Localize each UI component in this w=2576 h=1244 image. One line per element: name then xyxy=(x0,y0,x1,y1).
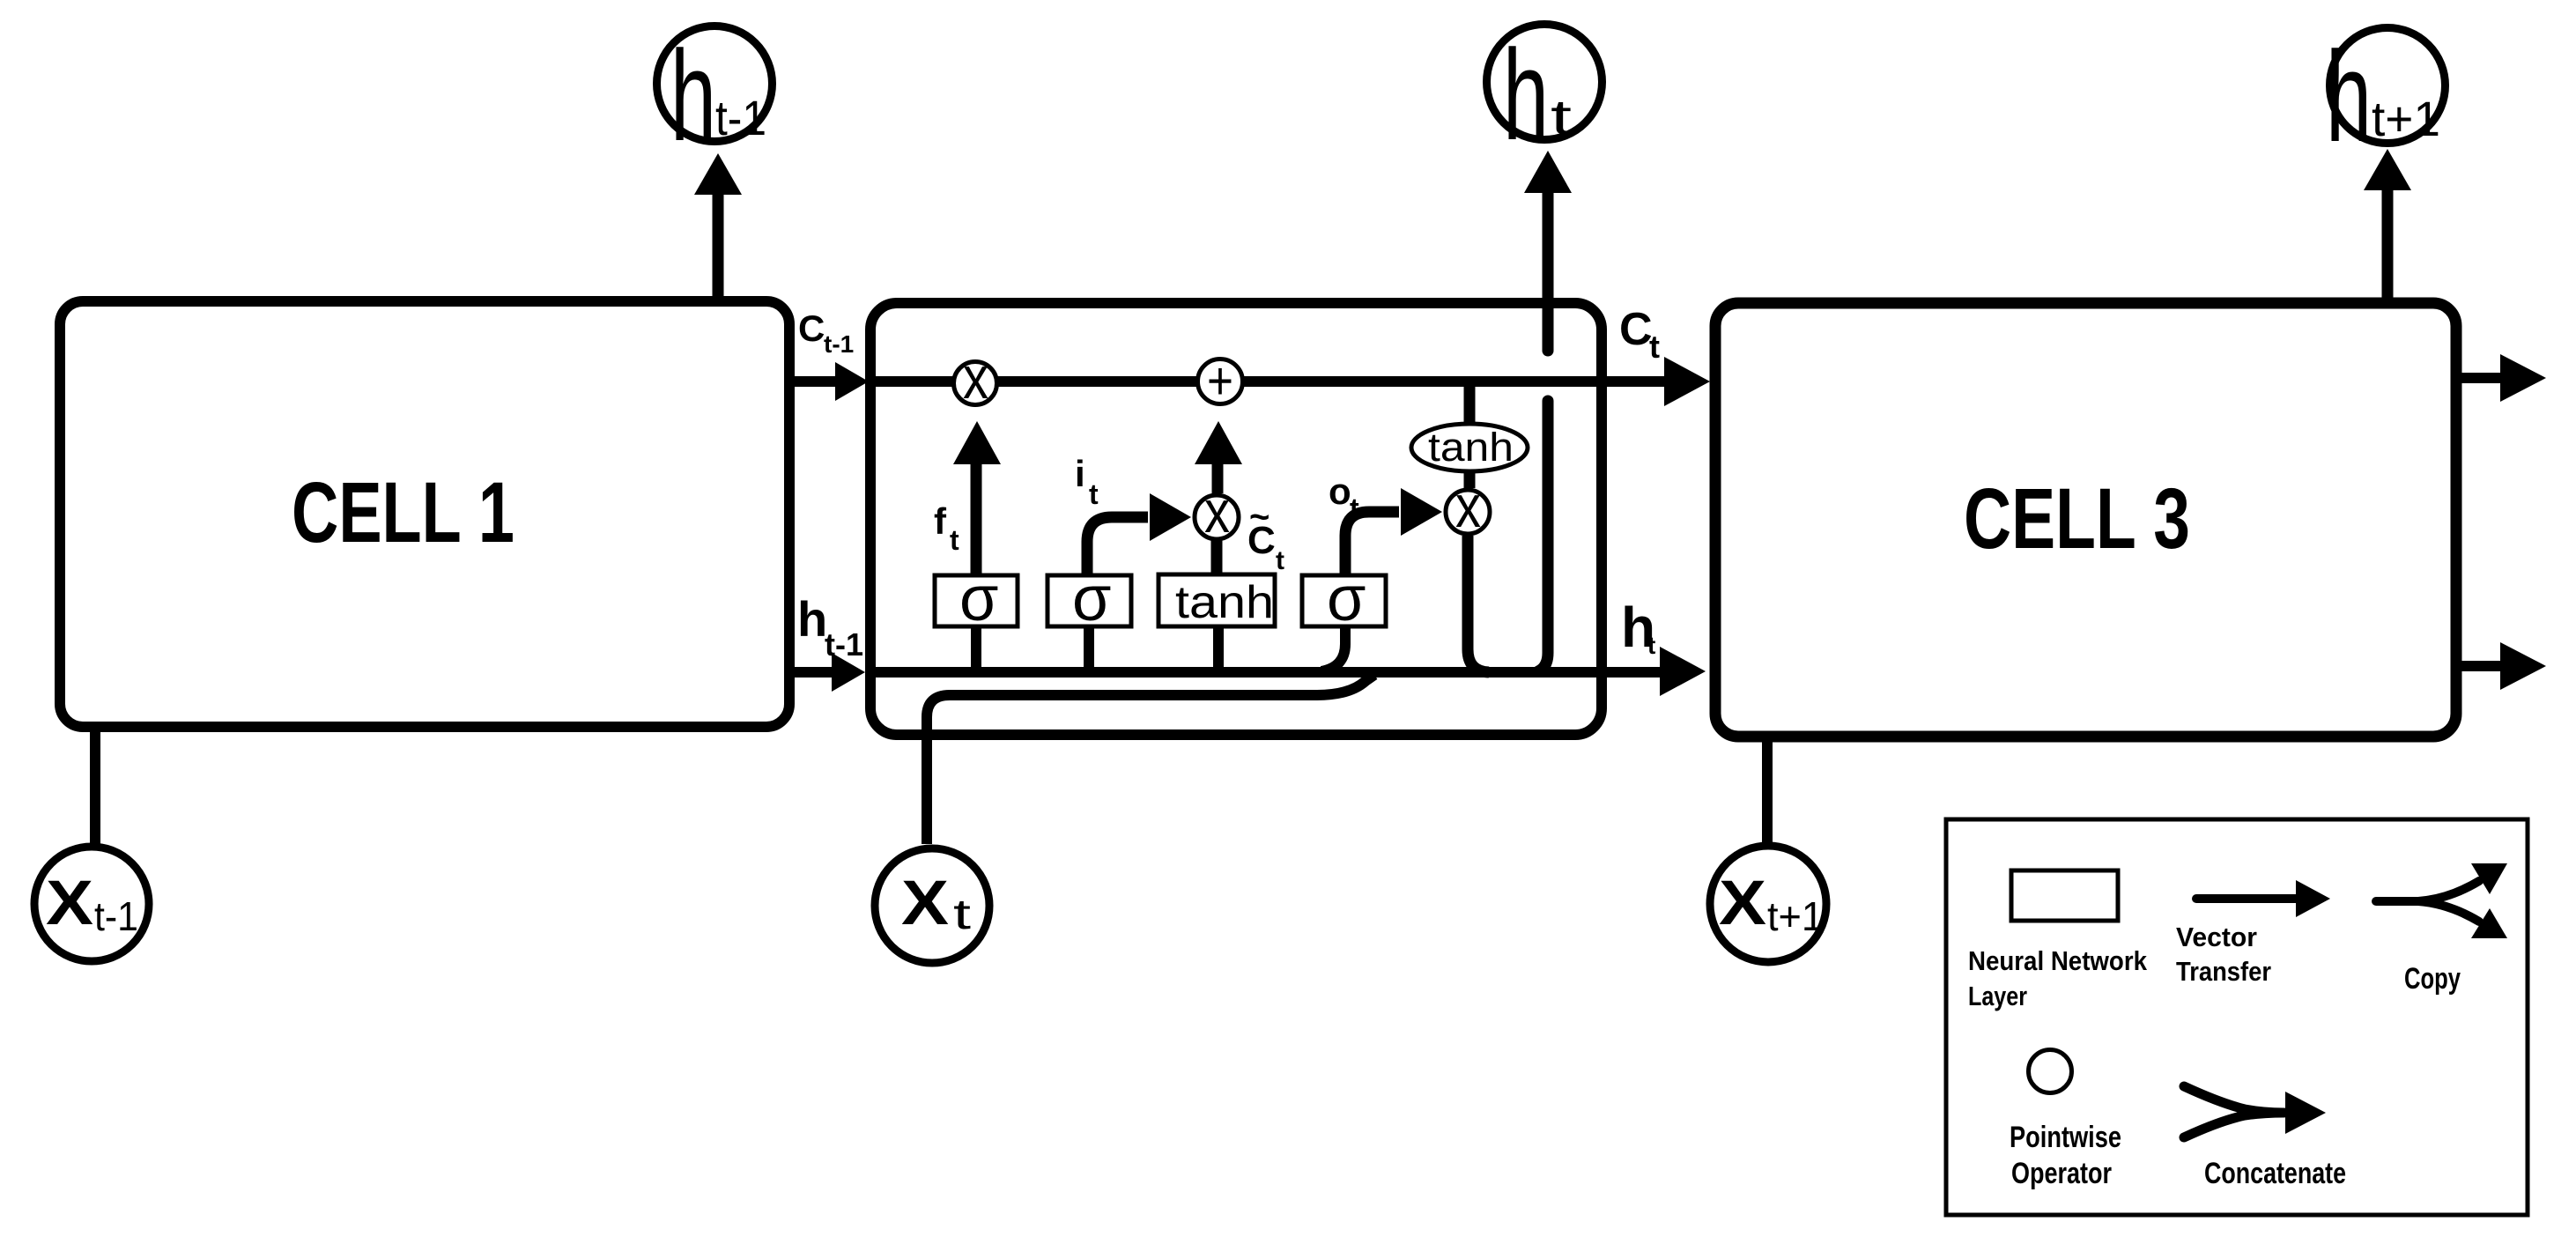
svg-text:h: h xyxy=(797,591,827,647)
svg-text:t-1: t-1 xyxy=(824,330,854,358)
cell 3 box xyxy=(1715,303,2456,737)
svg-text:+: + xyxy=(1207,352,1233,411)
wire X_t-1 input xyxy=(90,727,100,844)
svg-text:t+1: t+1 xyxy=(1767,893,1824,939)
svg-text:h: h xyxy=(2326,25,2372,168)
legend copy symbol xyxy=(2376,863,2507,938)
svg-text:o: o xyxy=(1329,470,1351,512)
legend vector transfer arrow xyxy=(2196,880,2330,917)
wire sigma1 to h rail xyxy=(971,626,981,672)
svg-text:i: i xyxy=(1075,453,1085,494)
arrow h_t-1 into cell2 xyxy=(789,653,865,692)
svg-text:Layer: Layer xyxy=(1968,981,2027,1011)
legend label neural network layer xyxy=(1968,945,2148,1011)
operator x3 circle xyxy=(1446,473,1490,540)
label h_t (wire) xyxy=(1621,596,1655,659)
svg-text:X: X xyxy=(901,869,949,938)
svg-text:t: t xyxy=(953,892,971,938)
legend label vector transfer xyxy=(2176,922,2271,987)
arrow C_t to cell3 xyxy=(1664,357,1710,406)
svg-text:t-1: t-1 xyxy=(715,90,766,145)
svg-text:Concatenate: Concatenate xyxy=(2204,1157,2346,1190)
svg-text:h: h xyxy=(670,24,716,167)
node h_t-1 circle xyxy=(657,24,773,167)
wire C rail xyxy=(870,376,1664,387)
svg-text:t: t xyxy=(1551,89,1573,144)
arrow o_t into x3 xyxy=(1345,488,1442,575)
arrow h_t to cell3 xyxy=(1660,647,1706,696)
label f_t xyxy=(934,500,959,556)
wire tanhbox to h rail xyxy=(1213,626,1224,672)
svg-text:tanh: tanh xyxy=(1428,425,1514,470)
svg-text:X: X xyxy=(46,869,93,938)
svg-text:t: t xyxy=(1350,492,1359,524)
legend label pointwise operator xyxy=(2010,1121,2121,1190)
arrow cell3 out top xyxy=(2456,354,2546,402)
svg-text:CELL 3: CELL 3 xyxy=(1964,470,2190,566)
wire x3 down to h rail xyxy=(1468,536,1489,672)
gate sigma 3 box xyxy=(1302,564,1386,634)
svg-text:t: t xyxy=(950,524,959,556)
svg-text:Operator: Operator xyxy=(2011,1157,2112,1190)
label o_t xyxy=(1329,470,1359,524)
operator + circle xyxy=(1198,352,1243,411)
wire C~ vertical tanhbox to x2 xyxy=(1211,529,1223,575)
arrow i_t into x2 xyxy=(1087,493,1191,575)
svg-text:Copy: Copy xyxy=(2404,962,2461,996)
svg-text:t+1: t+1 xyxy=(2372,91,2440,146)
svg-text:t-1: t-1 xyxy=(94,893,138,939)
operator x2 circle xyxy=(1195,478,1239,545)
legend box xyxy=(1946,819,2528,1215)
label C_t-1 xyxy=(798,307,854,358)
node h_t circle xyxy=(1487,23,1603,167)
svg-text:t: t xyxy=(1089,478,1099,510)
wire h_t up (above C rail, crosses box top) xyxy=(1524,151,1572,351)
node X_t circle xyxy=(875,848,989,963)
wire sigma2 to h rail xyxy=(1084,626,1094,672)
operator x1 (forget) circle xyxy=(954,344,997,411)
label i_t xyxy=(1075,453,1099,510)
cell 1 box xyxy=(60,301,789,727)
gate sigma 1 box xyxy=(935,564,1018,634)
svg-text:h: h xyxy=(1503,23,1549,167)
wire tanh ellipse to x3 xyxy=(1464,471,1476,488)
wire h rail xyxy=(870,667,1660,678)
gate tanh box xyxy=(1158,574,1275,628)
svg-text:x: x xyxy=(963,344,988,411)
svg-text:t: t xyxy=(1276,546,1284,575)
wire sigma3 to h rail xyxy=(1321,626,1345,671)
svg-text:t: t xyxy=(1647,632,1655,659)
svg-text:CELL 1: CELL 1 xyxy=(292,464,514,560)
svg-text:f: f xyxy=(934,500,947,542)
svg-text:x: x xyxy=(1455,473,1481,540)
node X_t+1 circle xyxy=(1710,846,1826,962)
svg-text:C: C xyxy=(1619,304,1653,355)
svg-text:Neural Network: Neural Network xyxy=(1968,945,2148,976)
svg-text:σ: σ xyxy=(1072,564,1111,634)
arrow h_t+1 output xyxy=(2364,149,2411,303)
arrow C_t-1 into cell2 xyxy=(789,362,869,401)
legend concatenate symbol xyxy=(2184,1086,2326,1137)
label C_t xyxy=(1619,304,1660,365)
legend pointwise operator symbol xyxy=(2029,1050,2072,1093)
node h_t+1 circle xyxy=(2326,25,2446,168)
gate sigma 2 box xyxy=(1047,564,1131,634)
svg-text:Vector: Vector xyxy=(2176,922,2257,952)
svg-text:tanh: tanh xyxy=(1175,577,1274,628)
label C~_t xyxy=(1247,498,1284,575)
label h_t-1 (wire) xyxy=(797,591,863,663)
op tanh ellipse xyxy=(1411,424,1528,471)
cell 2 (LSTM) box xyxy=(870,303,1602,735)
svg-text:t-1: t-1 xyxy=(825,626,863,663)
legend neural network layer symbol xyxy=(2011,870,2118,921)
wire C rail to tanh ellipse xyxy=(1464,381,1476,424)
svg-text:X: X xyxy=(1719,869,1766,938)
arrow C~ into + xyxy=(1195,421,1242,493)
arrow h_t-1 output xyxy=(694,153,742,301)
svg-text:σ: σ xyxy=(959,564,998,634)
arrow f_t into x1 xyxy=(953,421,1001,575)
svg-text:C: C xyxy=(798,307,825,349)
svg-text:Transfer: Transfer xyxy=(2176,956,2271,987)
node X_t-1 circle xyxy=(34,847,149,961)
svg-text:~: ~ xyxy=(1249,498,1269,537)
wire X_t+1 input xyxy=(1762,737,1773,844)
wire X_t input path into cell2 xyxy=(927,675,1374,844)
svg-text:Pointwise: Pointwise xyxy=(2010,1121,2121,1154)
arrow cell3 out bottom xyxy=(2456,642,2546,690)
wire h_t inner vertical (below C rail to h rail) xyxy=(1538,401,1548,671)
svg-text:t: t xyxy=(1649,329,1660,365)
